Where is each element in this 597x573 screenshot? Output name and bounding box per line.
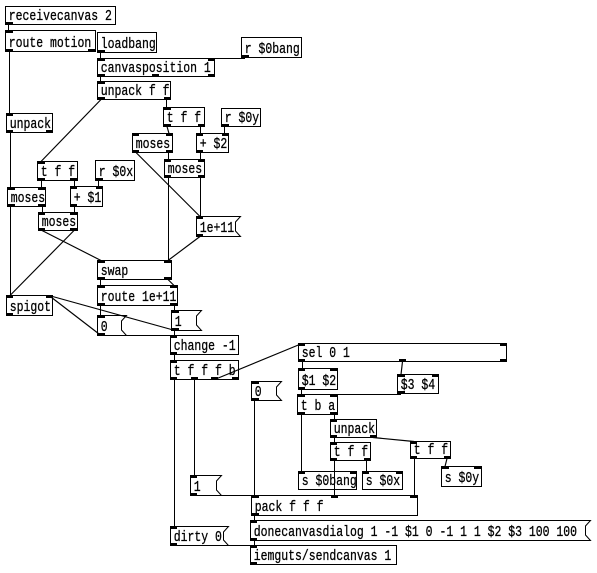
wire tffL.out1 -> s0x.in0 xyxy=(366,461,368,472)
object box [swap] (swap) xyxy=(98,260,172,281)
wire swap.out1 -> rt11.in1 xyxy=(168,280,174,286)
object box [t f f f b] (tfb) xyxy=(170,360,239,381)
object box [r $0y] (r0y) xyxy=(222,109,261,128)
object box [+ $1] (p1) xyxy=(70,186,103,208)
wire rm.out0 -> up.in0 xyxy=(9,52,11,114)
wire mosC.out1 -> spig.in0 xyxy=(10,231,74,296)
wire tba.out1 -> upR.in0 xyxy=(334,415,336,420)
svg-text:r $0y: r $0y xyxy=(225,111,259,128)
svg-text:route motion: route motion xyxy=(9,36,92,53)
svg-text:$3 $4: $3 $4 xyxy=(401,378,435,395)
wire dirty.out0 -> iem.in0 xyxy=(174,545,254,547)
wire mosD.out0 -> swap.in1 xyxy=(168,178,170,261)
object box [pack f f f] (pack) xyxy=(252,495,418,517)
svg-text:change -1: change -1 xyxy=(174,339,236,356)
object box [route motion] (rm) xyxy=(6,30,96,53)
wire mosC.out0 -> swap.in0 xyxy=(42,231,101,261)
wire tfb.out2 -> sel.in0 xyxy=(215,344,302,380)
svg-text:r $0x: r $0x xyxy=(99,165,133,182)
svg-text:canvasposition 1: canvasposition 1 xyxy=(101,61,211,78)
object box [iemguts/sendcanvas 1] (iem) xyxy=(250,545,397,566)
wire tff1.out0 -> mosA.in1 xyxy=(167,127,169,134)
wire m0L.out0 -> chg.in0 xyxy=(101,335,174,337)
message box [0] (m0L) xyxy=(98,315,127,337)
svg-text:t f f: t f f xyxy=(167,111,201,128)
svg-text:1: 1 xyxy=(175,315,182,332)
wire upR.out0 -> tffL.in0 xyxy=(334,438,336,443)
object box [r $0bang] (rbang) xyxy=(242,38,302,59)
wire rt11.out1 -> m1L.in0 xyxy=(174,306,176,311)
svg-text:moses: moses xyxy=(42,215,76,232)
svg-text:1: 1 xyxy=(194,480,201,497)
svg-text:t f f f b: t f f f b xyxy=(174,364,236,381)
svg-text:swap: swap xyxy=(101,264,129,281)
wire rc.out0 -> rm.in0 xyxy=(8,25,10,31)
wire tff2.out0 -> mosB.in1 xyxy=(41,181,43,188)
wire d34.out0 -> tba.in1 xyxy=(334,394,401,396)
message box [1] (m1L) xyxy=(172,310,202,332)
object box [$1 $2] (d12) xyxy=(298,368,338,391)
svg-text:iemguts/sendcanvas 1: iemguts/sendcanvas 1 xyxy=(254,549,392,566)
object box [r $0x] (r0x) xyxy=(96,161,135,182)
svg-text:t b a: t b a xyxy=(301,399,335,416)
object box [s $0bang] (sbang) xyxy=(298,471,357,491)
wire chg.out0 -> tfb.in0 xyxy=(174,355,176,361)
svg-text:r $0bang: r $0bang xyxy=(245,42,300,59)
object box [canvasposition 1] (cpos) xyxy=(98,58,216,78)
object box [receivecanvas 2] (rc) xyxy=(6,7,116,26)
object box [moses] (mosB) xyxy=(8,187,46,208)
object box [t f f] (tffL) xyxy=(330,442,371,462)
wire p2.out0 -> mosD.in1 xyxy=(200,153,202,160)
svg-text:unpack f f: unpack f f xyxy=(101,84,170,101)
wire up.out0 -> mosB.in0 xyxy=(10,133,12,188)
wire m1L.out0 -> chg.in0 xyxy=(174,331,176,336)
wire cpos.out0 -> upff.in0 xyxy=(100,77,102,82)
svg-text:donecanvasdialog 1 -1 $1 0 -1: donecanvasdialog 1 -1 $1 0 -1 1 1 $2 $3 … xyxy=(254,525,577,542)
svg-text:moses: moses xyxy=(168,162,202,179)
object box [t f f] (tffR) xyxy=(410,441,451,460)
wire mosA.out0 -> m1e11.in0 xyxy=(136,153,200,217)
wire m1B.out0 -> pack.in0 xyxy=(194,495,255,497)
object box [sel 0 1] (sel) xyxy=(298,343,507,363)
wire mosB.out1 -> mosC.in0 xyxy=(42,207,44,213)
object box [unpack] (upR) xyxy=(330,419,377,439)
svg-text:unpack: unpack xyxy=(10,117,51,134)
object box [+ $2] (p2) xyxy=(196,133,229,154)
wire m1L.out0 -> spig.in1 xyxy=(49,296,175,331)
wire rbang.out0 -> cpos.in1 xyxy=(211,58,245,60)
svg-text:unpack: unpack xyxy=(334,422,375,439)
wire done.out0 -> iem.in0 xyxy=(254,541,256,546)
svg-text:sel 0 1: sel 0 1 xyxy=(302,346,350,363)
wire tba.out0 -> sbang.in0 xyxy=(301,415,303,472)
object box [t f f] (tff2) xyxy=(38,161,78,182)
object box [moses] (mosD) xyxy=(164,159,205,179)
wire upff.out0 -> tff2.in0 xyxy=(41,100,101,162)
object box [t f f] (tff1) xyxy=(164,107,206,128)
svg-text:s $0y: s $0y xyxy=(445,471,479,488)
svg-text:+ $1: + $1 xyxy=(74,191,102,208)
wire tffR.out0 -> pack.in2 xyxy=(414,459,416,496)
message box [donecanvasdialog 1 -1 $1 0 -1 1 1 $2 $3 100 100] (done) xyxy=(250,520,591,542)
svg-text:+ $2: + $2 xyxy=(200,137,228,154)
wire m1e11.out0 -> swap.in1 xyxy=(168,237,200,261)
object box [moses] (mosC) xyxy=(38,212,78,232)
object box [s $0y] (s0y) xyxy=(442,466,482,488)
wire p1.out0 -> mosC.in1 xyxy=(74,207,76,213)
svg-text:moses: moses xyxy=(11,191,45,208)
object box [moses] (mosA) xyxy=(132,133,173,154)
svg-text:moses: moses xyxy=(136,137,170,154)
svg-text:t f f: t f f xyxy=(334,445,368,462)
wire tffR.out1 -> s0y.in0 xyxy=(445,459,447,467)
wire mosB.out0 -> spig.in0 xyxy=(10,207,12,296)
svg-text:spigot: spigot xyxy=(10,300,51,317)
wire tffL.out0 -> pack.in1 xyxy=(334,461,336,496)
wire swap.out0 -> rt11.in0 xyxy=(100,280,102,286)
wire m0L.out0 -> spig.in1 xyxy=(49,296,101,336)
wire upR.out1 -> tffR.in0 xyxy=(373,438,414,442)
message box [dirty 0] (dirty) xyxy=(170,526,229,547)
wire tfb.out0 -> dirty.in0 xyxy=(174,380,176,527)
svg-text:1e+11: 1e+11 xyxy=(200,221,234,238)
wire m0M.out0 -> pack.in0 xyxy=(254,401,256,496)
svg-text:0: 0 xyxy=(101,320,108,337)
object box [change -1] (chg) xyxy=(170,335,239,356)
object box [t b a] (tba) xyxy=(298,394,338,416)
svg-text:route 1e+11: route 1e+11 xyxy=(101,290,177,307)
svg-text:t f f: t f f xyxy=(41,165,75,182)
wire tff1.out1 -> p2.in0 xyxy=(200,127,202,134)
wire d12.out0 -> tba.in0 xyxy=(301,390,303,395)
svg-text:dirty 0: dirty 0 xyxy=(174,530,222,547)
object box [unpack f f] (upff) xyxy=(98,81,172,101)
message box [1e+11] (m1e11) xyxy=(196,216,241,238)
svg-text:0: 0 xyxy=(255,385,262,402)
wire sel.out0 -> d12.in0 xyxy=(302,362,304,369)
wire sel.out1 -> d34.in0 xyxy=(401,362,403,375)
svg-text:receivecanvas 2: receivecanvas 2 xyxy=(9,9,112,26)
message box [0] (m0M) xyxy=(252,381,282,402)
svg-text:s $0x: s $0x xyxy=(366,474,400,491)
wire tff2.out1 -> p1.in0 xyxy=(74,181,76,187)
wire mosA.out1 -> mosD.in0 xyxy=(168,153,170,160)
wire upff.out1 -> tff1.in0 xyxy=(166,100,168,108)
svg-text:loadbang: loadbang xyxy=(101,37,156,54)
svg-text:$1 $2: $1 $2 xyxy=(302,374,336,391)
svg-text:t f f: t f f xyxy=(414,443,448,460)
message box [1] (m1B) xyxy=(190,475,222,497)
wire r0y.out0 -> p2.in1 xyxy=(224,127,226,134)
object box [spigot] (spig) xyxy=(6,295,53,317)
wire r0x.out0 -> p1.in1 xyxy=(98,181,100,187)
wire pack.out0 -> done.in0 xyxy=(254,516,256,521)
wire tfb.out1 -> m1B.in0 xyxy=(194,380,196,476)
wire lb.out0 -> cpos.in0 xyxy=(100,53,102,59)
svg-text:pack f f f: pack f f f xyxy=(255,500,324,517)
object box [unpack] (up) xyxy=(6,113,53,134)
wire mosD.out1 -> m1e11.in0 xyxy=(200,178,202,217)
object box [s $0x] (s0x) xyxy=(362,471,403,491)
wire rt11.out0 -> m0L.in0 xyxy=(100,306,102,316)
object box [$3 $4] (d34) xyxy=(398,374,440,395)
object box [route 1e+11] (rt11) xyxy=(98,285,178,307)
svg-text:s $0bang: s $0bang xyxy=(302,474,357,491)
object box [loadbang] (lb) xyxy=(98,33,157,54)
